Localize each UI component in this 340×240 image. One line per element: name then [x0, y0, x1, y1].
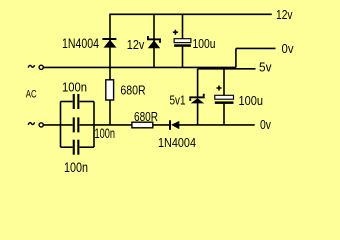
- wire: bank bottom branch right: [80, 146, 94, 148]
- wire: R2 to D3: [153, 124, 170, 126]
- wire: bottom AC line (cap bank to R2): [80, 124, 132, 126]
- wire: cap bank right rail: [93, 102, 95, 148]
- svg-text:5v: 5v: [259, 60, 272, 75]
- capacitor C1 bottom plate: [174, 44, 191, 47]
- wire: 0v vertical drop: [235, 48, 237, 67]
- wire: D3 to 0v rail end: [179, 124, 255, 126]
- svg-text:5v1: 5v1: [170, 92, 186, 107]
- capacitor C1 top plate (white): [174, 39, 191, 43]
- capacitor C3 100u plus sign: [217, 86, 222, 91]
- capacitor bank cap bottom plates: [73, 140, 75, 155]
- wire: bank bottom branch left: [61, 146, 73, 148]
- zener D4 triangle: [191, 98, 205, 103]
- svg-text:0v: 0v: [282, 41, 294, 56]
- zener D4 left tick down: [189, 98, 191, 101]
- tilde top input: [28, 65, 34, 68]
- capacitor bank cap top plates: [73, 94, 75, 109]
- wire: D1 vertical: [109, 14, 111, 67]
- terminal circle top input: [39, 65, 43, 69]
- svg-text:12v: 12v: [127, 37, 145, 52]
- zener D2 triangle: [148, 40, 160, 48]
- svg-text:680R: 680R: [120, 82, 145, 97]
- svg-text:100n: 100n: [64, 160, 88, 175]
- wire: D4 zener top lead: [197, 69, 199, 97]
- wire: cap bank left rail: [60, 102, 62, 148]
- wire: C1 top lead: [182, 14, 184, 39]
- svg-text:AC: AC: [26, 88, 37, 100]
- zener D2 12v bar: [147, 38, 161, 40]
- wire: 12v top rail: [109, 13, 271, 15]
- svg-text:100n: 100n: [62, 79, 87, 94]
- svg-text:100u: 100u: [193, 36, 216, 51]
- capacitor C3 top plate (white): [215, 95, 234, 99]
- wire: bottom AC line (circle to cap bank): [43, 124, 72, 126]
- svg-text:100u: 100u: [239, 93, 264, 108]
- wire: mid AC line: [43, 66, 236, 68]
- wire: 5v line: [198, 68, 256, 70]
- wire: D4 zener bottom lead: [197, 103, 199, 125]
- tilde bottom input: [28, 122, 34, 125]
- resistor R1 680R body: [106, 80, 114, 100]
- wire: bank top branch right: [80, 101, 94, 103]
- svg-text:0v: 0v: [260, 117, 271, 132]
- zener D4 right tick up: [203, 94, 205, 97]
- svg-text:1N4004: 1N4004: [62, 36, 99, 51]
- terminal circle bottom input: [39, 123, 43, 127]
- svg-text:100n: 100n: [95, 126, 116, 141]
- wire: 0v top horizontal: [236, 47, 276, 49]
- zener D2 right tick down: [159, 40, 161, 43]
- diode D1 1N4004 bar: [102, 38, 116, 40]
- wire: R1 top lead: [109, 67, 111, 79]
- wire: D2 zener vertical: [153, 14, 155, 67]
- svg-text:680R: 680R: [134, 109, 158, 124]
- wire: bank top branch left: [61, 101, 73, 103]
- resistor R2 680R body: [132, 122, 153, 128]
- svg-text:1N4004: 1N4004: [158, 135, 196, 150]
- wire: C3 bottom lead: [223, 104, 225, 125]
- capacitor C1 100u plus sign: [173, 30, 178, 35]
- wire: C3 top lead: [223, 69, 225, 96]
- zener D4 5v1 bar: [189, 96, 204, 98]
- svg-text:12v: 12v: [276, 7, 293, 22]
- zener D2 left tick up: [147, 36, 149, 39]
- capacitor bank cap middle plates: [73, 117, 75, 132]
- diode D3 1N4004 bar (cathode left): [169, 120, 171, 130]
- wire: C1 bottom lead: [182, 47, 184, 68]
- diode D3 1N4004 triangle pointing left: [171, 121, 179, 129]
- diode D1 1N4004 triangle: [104, 40, 117, 48]
- wire: R1 bottom lead: [109, 100, 111, 125]
- capacitor C3 bottom plate: [215, 101, 234, 104]
